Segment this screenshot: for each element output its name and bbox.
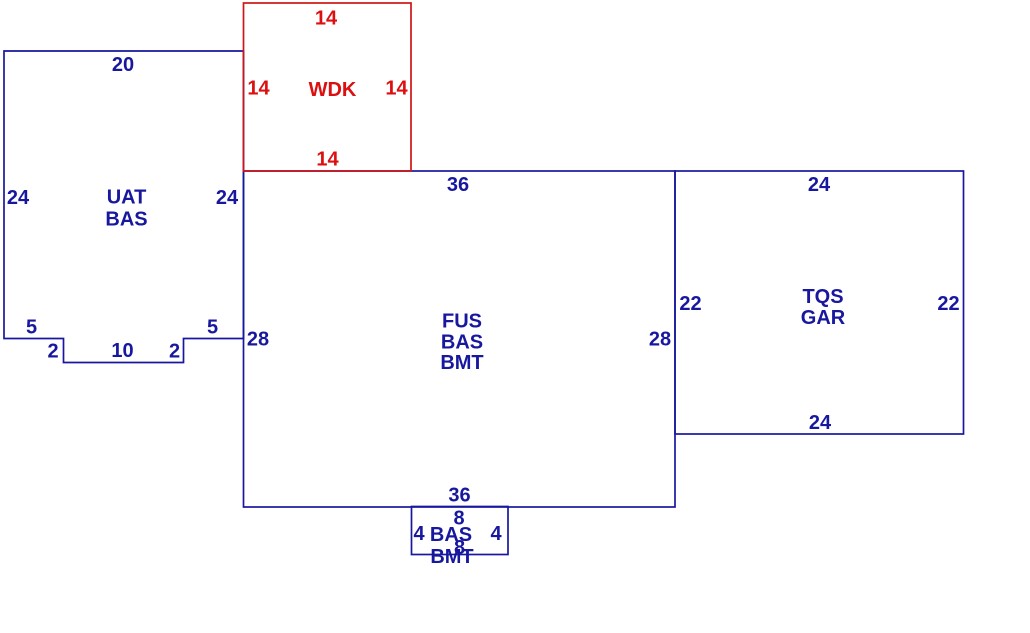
svg-text:10: 10 xyxy=(111,340,133,362)
svg-text:BMT: BMT xyxy=(440,352,483,374)
area BAS/BMT bump-out outline xyxy=(412,507,509,555)
svg-text:24: 24 xyxy=(808,174,831,196)
svg-text:14: 14 xyxy=(247,78,270,100)
svg-text:28: 28 xyxy=(649,329,671,351)
svg-text:22: 22 xyxy=(679,293,701,315)
svg-text:14: 14 xyxy=(385,78,408,100)
area FUS/BAS/BMT outline xyxy=(244,171,676,507)
svg-text:2: 2 xyxy=(47,341,58,363)
svg-text:20: 20 xyxy=(112,54,134,76)
svg-text:24: 24 xyxy=(216,187,239,209)
svg-text:5: 5 xyxy=(26,317,37,339)
svg-text:14: 14 xyxy=(315,8,338,30)
svg-text:14: 14 xyxy=(316,149,339,171)
svg-text:28: 28 xyxy=(247,329,269,351)
svg-text:BAS: BAS xyxy=(430,524,472,546)
svg-text:TQS: TQS xyxy=(802,286,843,308)
svg-text:24: 24 xyxy=(7,187,30,209)
svg-text:36: 36 xyxy=(448,485,470,507)
svg-text:5: 5 xyxy=(207,317,218,339)
area UAT/BAS outline xyxy=(4,51,244,363)
svg-text:UAT: UAT xyxy=(107,187,147,209)
svg-text:22: 22 xyxy=(937,293,959,315)
svg-text:36: 36 xyxy=(447,174,469,196)
svg-text:4: 4 xyxy=(490,523,502,545)
svg-text:FUS: FUS xyxy=(442,311,482,333)
svg-text:GAR: GAR xyxy=(801,307,846,329)
svg-text:WDK: WDK xyxy=(309,79,357,101)
area TQS/GAR outline xyxy=(675,171,964,434)
svg-text:4: 4 xyxy=(413,523,425,545)
svg-text:2: 2 xyxy=(169,341,180,363)
svg-text:BAS: BAS xyxy=(441,332,483,354)
area WDK outline (red) xyxy=(244,3,412,171)
svg-text:BAS: BAS xyxy=(105,209,147,231)
svg-text:24: 24 xyxy=(809,412,832,434)
svg-text:BMT: BMT xyxy=(430,546,473,568)
